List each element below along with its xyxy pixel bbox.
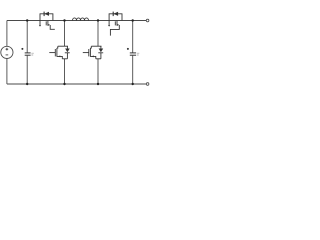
junction dot output cap bottom — [132, 83, 134, 85]
junction dot node B bottom — [97, 83, 99, 85]
wire bottom rail (common return) — [7, 83, 146, 85]
wire node A lower vertical — [64, 59, 66, 84]
capacitor C1 (input capacitor plates) — [25, 53, 31, 55]
junction dot input cap top — [26, 19, 28, 21]
diode D3 (antiparallel with Q3) — [98, 46, 103, 59]
junction dot node A bottom — [63, 83, 65, 85]
terminal Vout+ (open circle, top right) — [146, 19, 149, 22]
wire input capacitor branch — [26, 21, 28, 85]
V1 plus mark — [6, 48, 9, 51]
wire top rail (Vin+ to Vout+) — [7, 20, 146, 22]
wire node B upper vertical — [97, 21, 99, 47]
transistor Q4 (top-right MOSFET, body-diode hump on top rail) — [108, 12, 122, 36]
junction dot node A top rail — [63, 19, 65, 21]
junction dot node B top rail — [97, 19, 99, 21]
C2 value label (tiny text) — [137, 53, 139, 55]
diode D2 (antiparallel with Q2) — [65, 46, 70, 59]
junction dot input cap bottom — [26, 83, 28, 85]
terminal Vout- (open circle, bottom right) — [146, 83, 149, 86]
transistor Q2 (left shunt MOSFET at node A) — [49, 46, 68, 59]
wire source branch vertical — [6, 21, 8, 85]
C2 polarity + mark — [127, 48, 129, 50]
wire node B lower vertical — [97, 59, 99, 84]
C1 value label (tiny text) — [31, 53, 33, 55]
V1 minus mark — [6, 54, 9, 56]
transistor Q1 (top-left MOSFET, body-diode hump on top rail) — [39, 12, 55, 30]
C1 polarity + mark — [21, 48, 23, 50]
inductor L1 — [73, 18, 89, 21]
wire output capacitor branch — [132, 21, 134, 85]
voltage source V1 (DC source circle) — [1, 46, 13, 58]
wire node A upper vertical — [64, 21, 66, 47]
transistor Q3 (right shunt MOSFET at node B) — [83, 46, 102, 59]
capacitor C2 (output capacitor plates) — [130, 53, 136, 55]
junction dot output cap top — [132, 19, 134, 21]
